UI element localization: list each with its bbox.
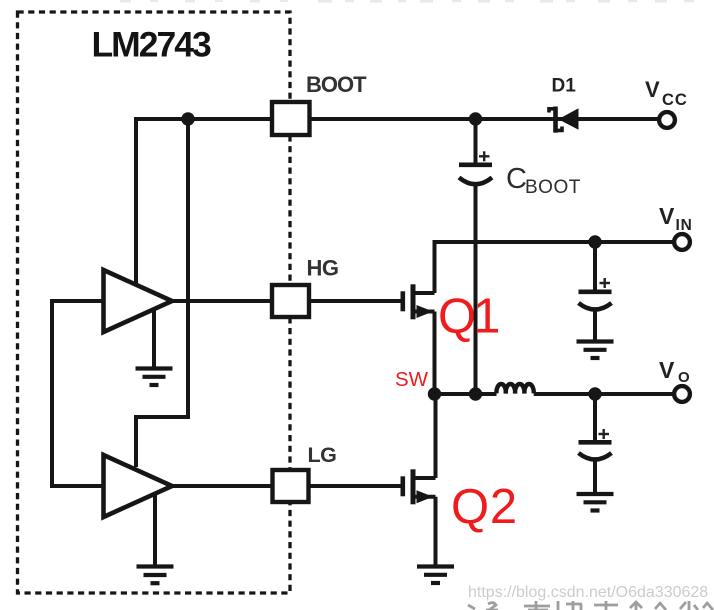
op-amp U2 low-side driver (104, 455, 173, 517)
wire: feedback loop joining driver inputs (52, 301, 104, 486)
node: SW cboot junction (469, 387, 482, 400)
ground under U2 (153, 494, 157, 565)
terminal Vcc (659, 112, 675, 128)
svg-text:IN: IN (676, 217, 693, 234)
svg-text:V: V (659, 357, 675, 383)
node: SW Q1/Q2 junction (428, 387, 441, 400)
node: boot/diode/cap junction (469, 112, 482, 125)
svg-text:V: V (659, 203, 675, 229)
wire: SW node to inductor (435, 392, 497, 396)
svg-text:Q2: Q2 (451, 480, 518, 534)
wire: U2 output to LG pin (170, 484, 272, 488)
svg-text:CC: CC (662, 91, 688, 109)
svg-text:BOOT: BOOT (306, 72, 367, 97)
wire: BOOT supply drop to low-side driver (136, 119, 188, 467)
diode D1 (Schottky) (549, 107, 579, 133)
transistor Q2 (low-side NMOS) (309, 394, 436, 565)
op-amp U1 high-side driver (104, 270, 173, 332)
capacitor CBOOT (474, 119, 478, 164)
svg-text:HG: HG (307, 256, 339, 281)
ground under Q2 (417, 567, 454, 584)
transistor Q1 (high-side NMOS) (309, 244, 435, 394)
svg-text:Q1: Q1 (438, 290, 498, 344)
terminal Vin (674, 234, 690, 250)
pin LG (273, 470, 309, 502)
cropped header text remnants (120, 0, 694, 3)
ground under Cout (577, 494, 614, 511)
wire: inductor to Vo (534, 392, 674, 396)
svg-text:C: C (506, 163, 527, 195)
node: Vin cap junction (588, 235, 601, 248)
capacitor Cout (593, 394, 597, 442)
svg-text:V: V (645, 77, 660, 102)
node: BOOT internal junction (181, 112, 194, 125)
pin BOOT (272, 102, 310, 135)
node: Vo cap junction (588, 387, 601, 400)
svg-text:LM2743: LM2743 (92, 25, 211, 65)
capacitor Cin (593, 242, 597, 291)
svg-text:SW: SW (395, 368, 429, 391)
wire: BOOT supply drop to high-side driver (134, 117, 138, 286)
terminal Vo (674, 386, 690, 402)
watermark caption (clipped chinese text) (468, 601, 713, 610)
wire: BOOT internal wire (136, 117, 272, 121)
LM2743 dashed box (18, 12, 291, 593)
pin HG (272, 285, 309, 317)
svg-text:BOOT: BOOT (525, 177, 581, 198)
svg-text:LG: LG (308, 443, 337, 467)
wire: Vin rail (435, 242, 675, 293)
ground under U1 (152, 310, 156, 367)
svg-text:O: O (678, 369, 690, 386)
wire: U1 output to HG pin (170, 299, 272, 303)
svg-text:D1: D1 (552, 76, 577, 97)
wire: BOOT to Vcc rail (310, 117, 660, 121)
inductor L1 (496, 384, 533, 393)
svg-text:https://blog.csdn.net/O6da3306: https://blog.csdn.net/O6da330628 (468, 584, 708, 601)
ground under Cin (577, 342, 614, 359)
